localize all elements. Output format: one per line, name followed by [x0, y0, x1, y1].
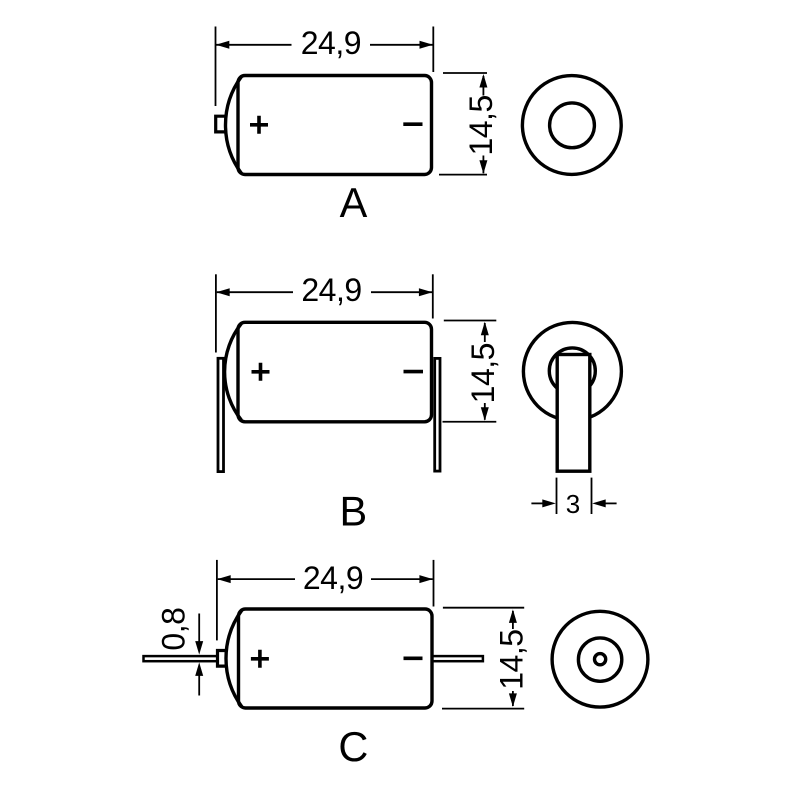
battery A minus sign	[403, 122, 422, 126]
figure B: dim 3 arrowhead right (points left)	[592, 499, 606, 507]
battery A end view: outer circle	[522, 76, 621, 175]
battery B end view: outer circle	[523, 322, 621, 420]
svg-text:14,5: 14,5	[463, 95, 499, 155]
figure C: dim 24,9 dimension line	[218, 578, 433, 580]
battery C positive terminal nub	[218, 651, 227, 667]
figure B: dim 14,5 arrowhead down	[481, 407, 489, 421]
battery B plus sign	[252, 363, 270, 381]
battery A positive terminal nub	[216, 116, 226, 132]
figure C: dim 14,5 arrowhead down	[509, 693, 517, 707]
figure B: dim 24,9 arrowhead right	[419, 288, 433, 296]
figure C: right lead wire	[432, 656, 483, 661]
figure B: dim 3 leader line right	[604, 502, 617, 504]
figure C: dim 0,8 dimension line top	[198, 614, 200, 644]
figure A: dim 14,5 dimension line	[482, 76, 484, 173]
figure A: dim 14,5 extension line top	[443, 72, 487, 74]
svg-text:C: C	[338, 723, 368, 770]
figure C: dim 14,5 extension line top	[443, 607, 524, 609]
figure A: dim 24,9 arrowhead right	[420, 41, 434, 49]
svg-text:3: 3	[566, 489, 580, 519]
svg-text:24,9: 24,9	[301, 25, 361, 61]
figure B: dim 3 extension line right	[591, 478, 593, 514]
figure C: dim 24,9 arrowhead left	[217, 575, 231, 583]
battery B body	[238, 322, 432, 422]
figure C: dim 14,5 dimension line	[512, 611, 514, 706]
battery B right solder tag	[435, 358, 440, 471]
figure B: dim 14,5 extension line bottom	[443, 421, 497, 423]
figure B: dim 24,9 arrowhead left	[216, 288, 230, 296]
figure A: dim 24,9 extension line right	[432, 27, 434, 73]
figure B: dim 24,9 dimension line	[217, 291, 432, 293]
battery C end view: center dot circle	[595, 654, 606, 665]
figure A: dim 14,5 arrowhead down	[479, 160, 487, 174]
figure B: dim 14,5 dimension line	[484, 323, 486, 420]
svg-text:14,5: 14,5	[493, 629, 529, 689]
battery C minus sign	[404, 656, 423, 660]
battery B end view: solder tag	[557, 355, 590, 472]
figure C: dim 14,5 arrowhead up	[509, 609, 517, 623]
svg-text:A: A	[340, 179, 368, 226]
figure B: dim 14,5 extension line top	[444, 320, 497, 322]
battery A end view: inner circle	[550, 103, 595, 148]
figure A: dim 24,9 dimension line	[216, 44, 433, 46]
battery B minus sign	[404, 370, 424, 374]
figure C: left lead wire	[144, 656, 218, 661]
battery C end view: middle circle	[578, 638, 621, 681]
svg-text:24,9: 24,9	[303, 560, 363, 596]
figure C: dim 24,9 extension line left	[216, 560, 218, 641]
battery B dome (left end)	[225, 323, 242, 420]
figure B: dim 14,5 arrowhead up	[481, 322, 489, 336]
figure C: dim 24,9 extension line right	[433, 560, 435, 607]
figure C: dim 14,5 extension line bottom	[442, 708, 524, 710]
svg-text:14,5: 14,5	[465, 343, 501, 403]
svg-text:0,8: 0,8	[156, 608, 192, 651]
svg-text:24,9: 24,9	[301, 272, 361, 308]
battery A dome (left end)	[225, 77, 241, 174]
figure B: dim 24,9 extension line left	[215, 274, 217, 352]
figure C: dim 0,8 arrowhead down (to wire top)	[195, 641, 203, 655]
battery A plus sign	[250, 116, 268, 134]
figure C: dim 24,9 arrowhead right	[419, 575, 433, 583]
battery C body	[239, 609, 433, 708]
figure C: dim 0,8 arrowhead up (to wire bottom)	[195, 662, 203, 676]
battery C plus sign	[251, 650, 269, 668]
svg-text:B: B	[339, 487, 367, 534]
figure B: dim 3 extension line left	[556, 478, 558, 514]
battery B end view: inner circle	[549, 348, 595, 394]
battery C end view: outer circle	[552, 611, 648, 707]
battery A body	[238, 76, 432, 175]
figure C: dim 0,8 dimension line bottom	[198, 674, 200, 696]
figure B: dim 3 leader line left	[531, 502, 545, 504]
figure A: dim 24,9 arrowhead left	[216, 41, 230, 49]
battery C dome (left end)	[226, 610, 242, 707]
figure B: dim 24,9 extension line right	[432, 274, 434, 318]
figure A: dim 14,5 arrowhead up	[479, 74, 487, 88]
battery B left solder tag	[218, 358, 224, 471]
figure A: dim 14,5 extension line bottom	[439, 174, 487, 176]
figure A: dim 24,9 extension line left	[215, 27, 217, 107]
figure B: dim 3 arrowhead left (points right)	[542, 499, 556, 507]
